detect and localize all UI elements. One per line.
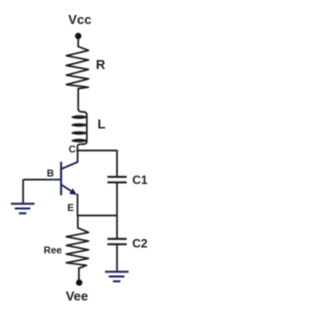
svg-text:E: E bbox=[67, 203, 74, 214]
svg-text:Vcc: Vcc bbox=[68, 12, 91, 27]
svg-text:C2: C2 bbox=[132, 236, 148, 250]
svg-text:Ree: Ree bbox=[44, 245, 63, 256]
svg-text:C: C bbox=[69, 145, 76, 156]
svg-text:L: L bbox=[98, 117, 106, 132]
svg-text:R: R bbox=[96, 57, 106, 72]
svg-text:C1: C1 bbox=[132, 173, 148, 187]
svg-text:Vee: Vee bbox=[66, 288, 88, 303]
svg-text:B: B bbox=[47, 169, 54, 180]
